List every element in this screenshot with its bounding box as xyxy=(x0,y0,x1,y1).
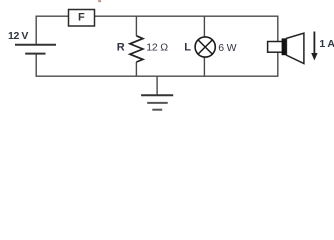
speaker LS1 body rect xyxy=(268,42,284,53)
wire: battery - down, bottom rail, up to speaker bottom xyxy=(36,52,278,76)
wire: fuse to top-right corner and down to speaker xyxy=(95,16,278,41)
wire: ground stub xyxy=(156,76,158,94)
svg-text:1 A: 1 A xyxy=(319,38,334,50)
fuse F box xyxy=(69,10,95,27)
wire: top-left from battery + to fuse xyxy=(36,16,68,45)
wire: lamp top stub xyxy=(203,16,205,37)
ground xyxy=(141,95,173,110)
wire: resistor top stub xyxy=(135,16,137,36)
svg-text:12 Ω: 12 Ω xyxy=(146,42,168,54)
lamp L circle xyxy=(195,37,215,57)
svg-text:12 V: 12 V xyxy=(8,30,28,42)
svg-text:6 W: 6 W xyxy=(218,42,236,54)
svg-text:R: R xyxy=(117,41,125,53)
lamp X cross xyxy=(198,40,212,54)
speaker cone xyxy=(286,33,304,64)
wire: lamp bottom stub xyxy=(203,57,205,76)
battery B1 plates xyxy=(15,45,56,54)
speaker magnet bar xyxy=(282,38,287,55)
svg-text:F: F xyxy=(78,11,85,23)
resistor R zigzag xyxy=(130,36,143,62)
svg-text:L: L xyxy=(184,41,191,53)
current arrow 1 A xyxy=(313,32,315,55)
wire: resistor bottom stub xyxy=(135,62,137,76)
stray red speck xyxy=(98,0,101,2)
